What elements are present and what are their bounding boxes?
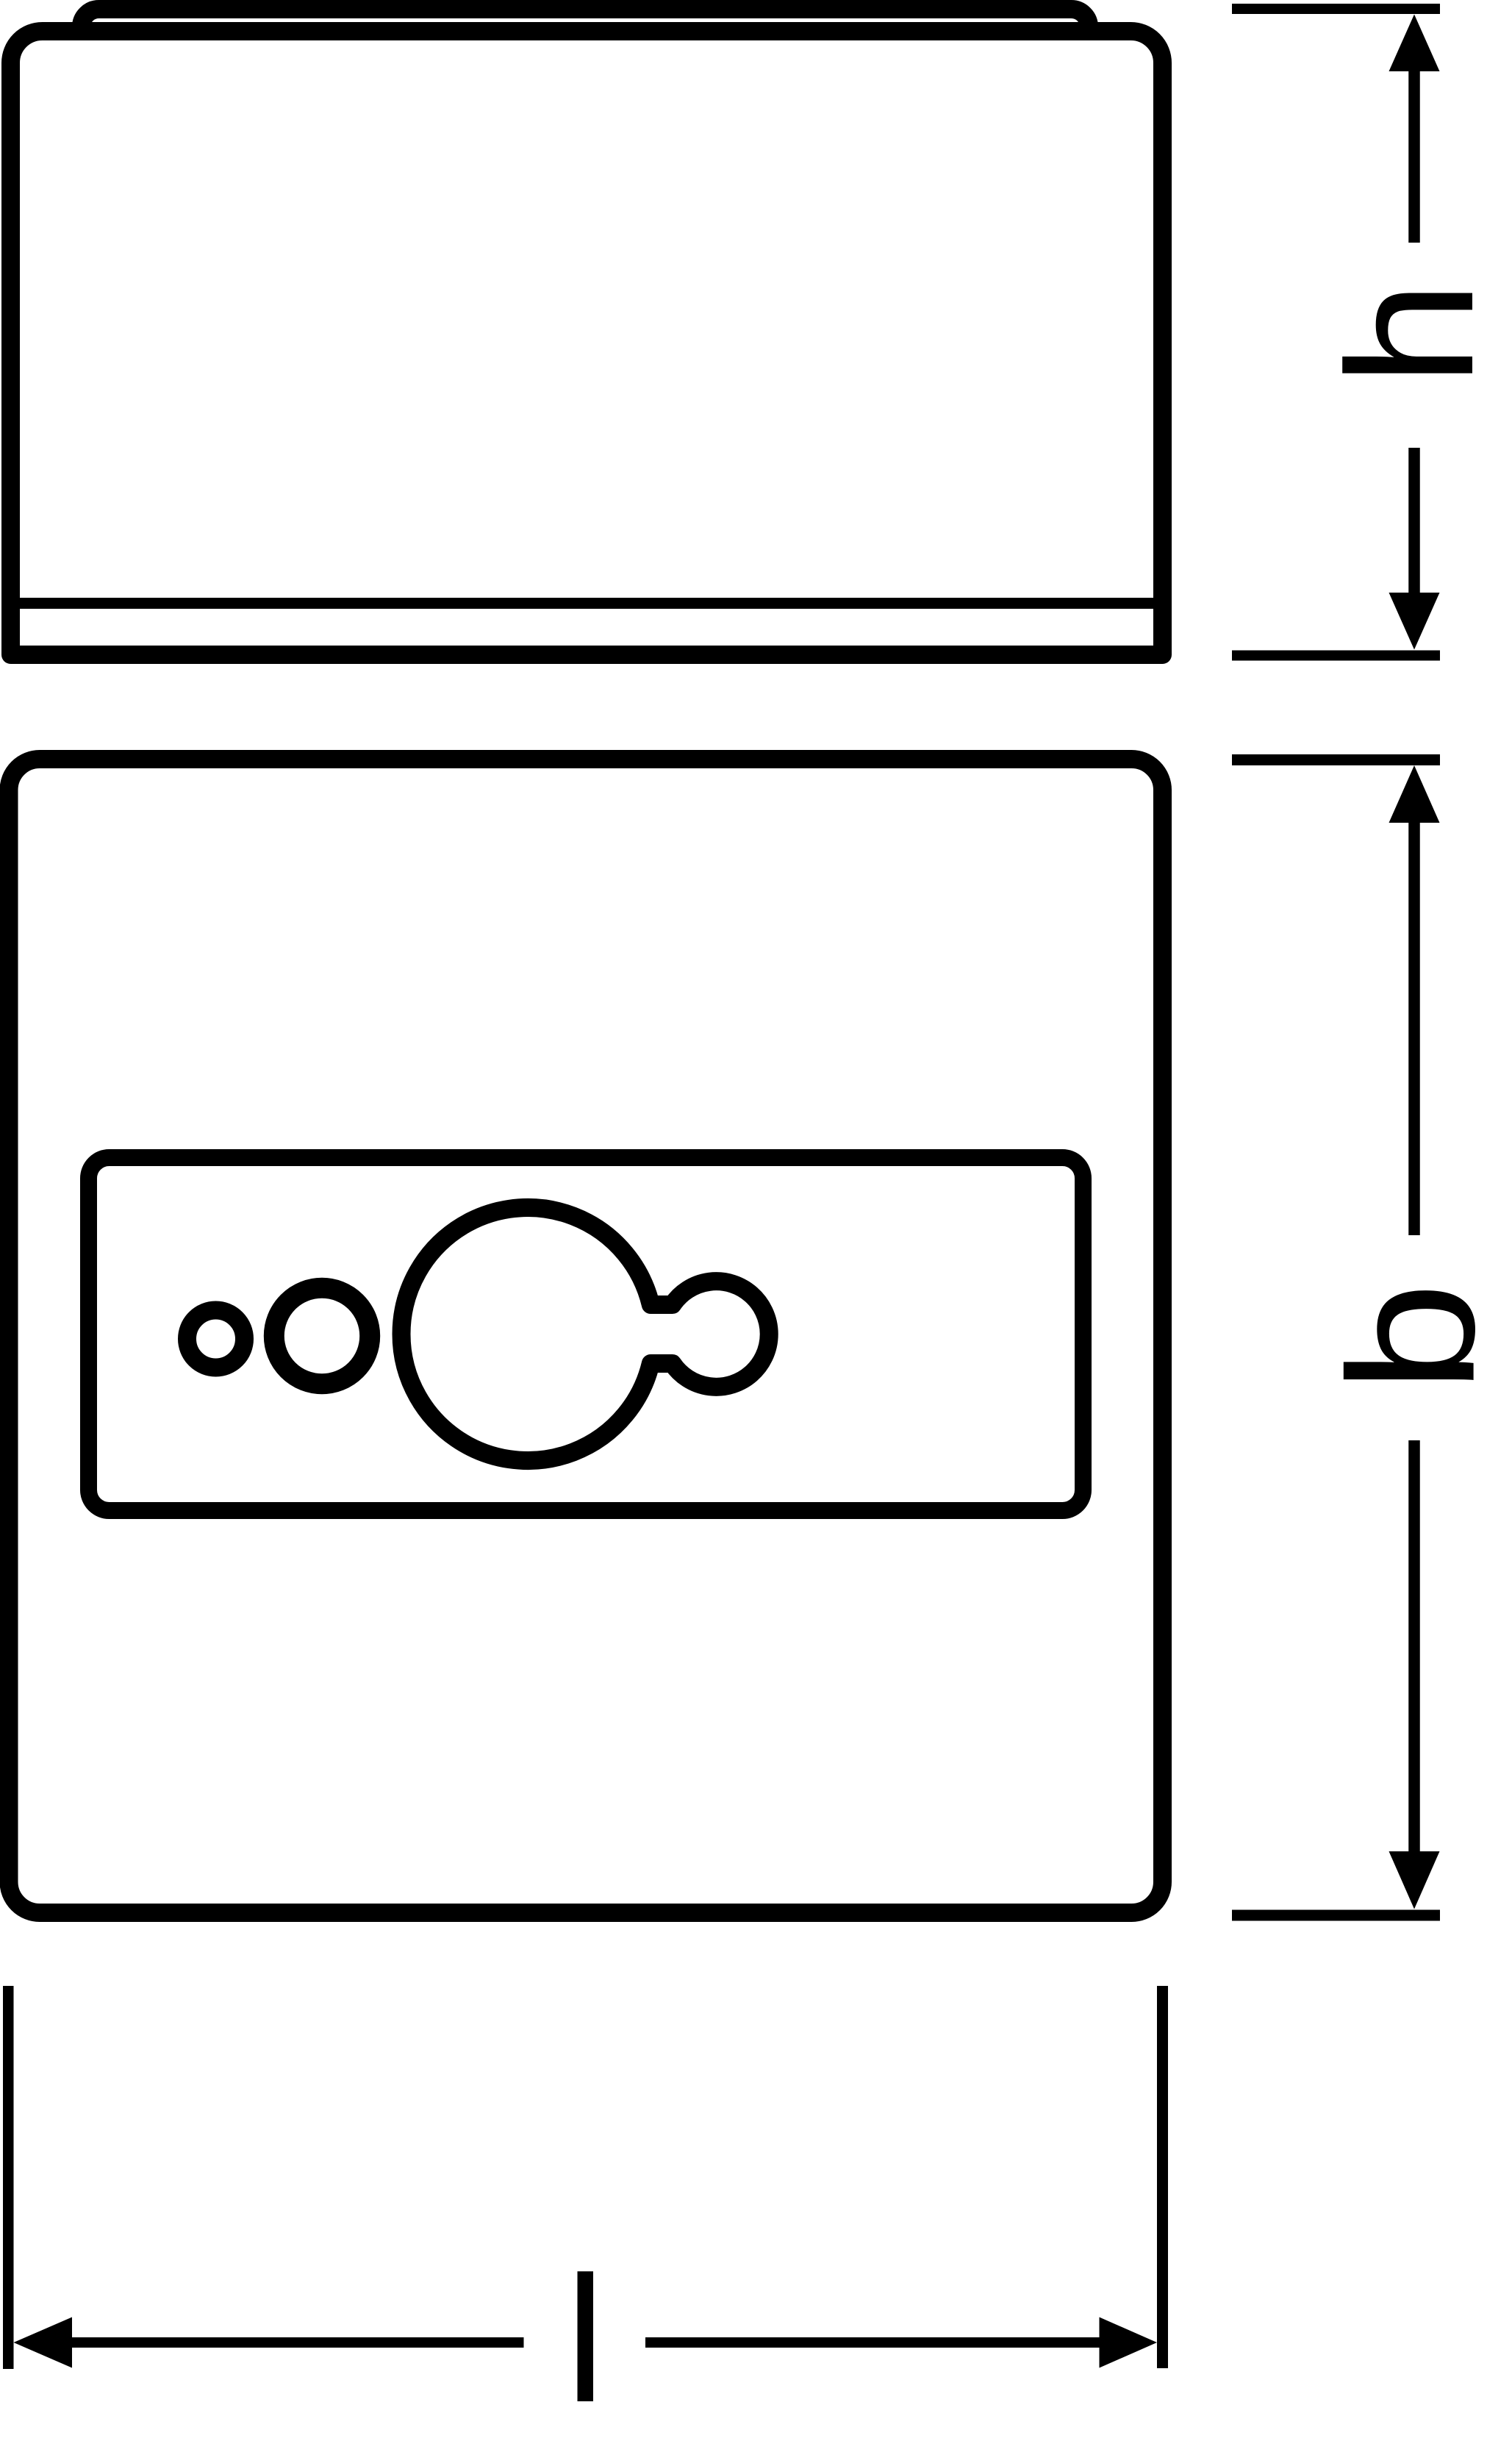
- dimension h: bottom tick: [1232, 651, 1440, 661]
- small circle 2: [274, 1288, 370, 1384]
- dimension h: top tick: [1232, 4, 1440, 14]
- svg-text:b: b: [1311, 1282, 1512, 1393]
- dimension l: left arrow: [14, 2317, 73, 2368]
- dimension b: top tick: [1232, 754, 1440, 765]
- dimension l: left tick: [3, 1986, 14, 2369]
- seam line (top view front plate): [20, 598, 1153, 609]
- front plate (front view square): [9, 760, 1163, 1913]
- dimension h: upper arrow: [1389, 15, 1440, 72]
- dimension h: lower arrow: [1408, 448, 1420, 593]
- keyhole (big circle + neck + small circle): [401, 1208, 769, 1461]
- dimension b: upper arrow: [1389, 765, 1440, 823]
- button plate (inner rounded rect): [89, 1158, 1083, 1511]
- dimension b: bottom tick: [1232, 1910, 1440, 1921]
- small circle 1: [187, 1310, 245, 1368]
- dimension b: lower arrow: [1408, 1440, 1420, 1851]
- dimension l: right arrow: [645, 2337, 1100, 2348]
- main body (top view): [11, 32, 1163, 655]
- dimension l: right tick: [1157, 1986, 1168, 2368]
- svg-text:h: h: [1311, 281, 1511, 387]
- svg-text:l: l: [565, 2239, 605, 2440]
- back plate (top view, behind body): [82, 10, 1089, 230]
